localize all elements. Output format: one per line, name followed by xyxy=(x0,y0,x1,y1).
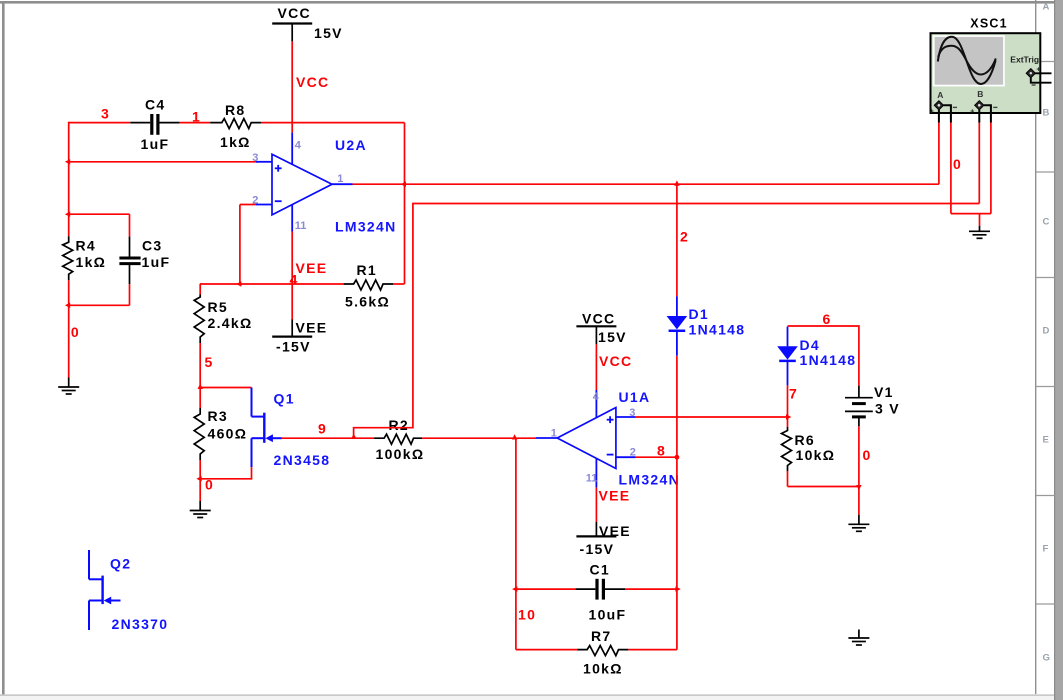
battery V1 xyxy=(858,386,860,398)
wire Q1 source to R3 xyxy=(200,478,251,480)
wire scope A- down xyxy=(950,123,952,214)
svg-text:1uF: 1uF xyxy=(142,254,171,270)
wire U2A output to scope A xyxy=(353,183,939,185)
svg-text:0: 0 xyxy=(71,324,80,340)
svg-text:VEE: VEE xyxy=(296,260,328,276)
svg-text:R2: R2 xyxy=(389,417,410,433)
capacitor C3 xyxy=(129,237,131,257)
wire net10 vertical xyxy=(515,438,517,649)
svg-text:1kΩ: 1kΩ xyxy=(220,134,251,150)
wire pin2 vertical xyxy=(239,205,241,285)
pin 11 xyxy=(595,458,597,488)
svg-text:3 V: 3 V xyxy=(875,400,900,416)
wire R7 right xyxy=(628,649,677,651)
svg-text:15V: 15V xyxy=(314,25,343,41)
transistor Q2 xyxy=(89,550,121,630)
resistor R6 xyxy=(782,427,792,471)
ground (floating) xyxy=(848,630,869,646)
svg-text:C3: C3 xyxy=(142,238,163,254)
svg-text:1: 1 xyxy=(551,428,557,440)
svg-text:-15V: -15V xyxy=(276,339,311,355)
svg-text:ExtTrig: ExtTrig xyxy=(1010,54,1039,64)
svg-text:A: A xyxy=(937,90,943,100)
svg-text:1N4148: 1N4148 xyxy=(689,321,746,337)
node junction net2/output xyxy=(674,180,679,185)
svg-text:+: + xyxy=(1036,66,1040,73)
node junction at net3/pin3 xyxy=(65,159,70,164)
node junction pin2 net xyxy=(236,281,241,286)
wire R5 bottom xyxy=(199,343,201,388)
wire net3 horizontal to C4 xyxy=(69,122,131,124)
svg-text:6: 6 xyxy=(823,311,832,327)
ground xyxy=(848,515,869,532)
op-amp U1A xyxy=(557,408,616,469)
svg-text:R6: R6 xyxy=(795,432,816,448)
pin 1 output xyxy=(536,437,558,439)
svg-text:2: 2 xyxy=(630,447,636,459)
svg-text:XSC1: XSC1 xyxy=(970,17,1007,31)
wire bottom net0 xyxy=(788,486,859,488)
svg-text:B: B xyxy=(1043,108,1050,119)
svg-text:D: D xyxy=(1043,326,1050,337)
svg-text:10kΩ: 10kΩ xyxy=(796,447,836,463)
wire R4 bottom xyxy=(68,280,70,305)
wire pin11 to VEE xyxy=(291,232,293,320)
svg-text:+: + xyxy=(930,108,934,115)
diode D1 xyxy=(676,296,678,316)
svg-text:1kΩ: 1kΩ xyxy=(76,254,107,270)
diode D4 xyxy=(787,327,789,347)
scope trace 2 xyxy=(938,46,996,75)
wire inverting net horizontal xyxy=(200,283,344,285)
ground xyxy=(190,501,211,518)
wire V1 bottom xyxy=(858,426,860,486)
svg-text:VCC: VCC xyxy=(582,310,615,326)
wire net6 xyxy=(788,326,859,386)
capacitor C4 xyxy=(130,122,150,124)
node junction output/feedback xyxy=(401,182,406,187)
svg-text:U1A: U1A xyxy=(619,389,651,405)
wire VCC to pin4 xyxy=(595,344,597,390)
wire scope B+ down xyxy=(978,123,980,204)
node junction net8 xyxy=(675,455,680,460)
svg-text:4: 4 xyxy=(593,391,600,403)
op-amp U2A xyxy=(272,154,332,215)
wire VCC to pin4 xyxy=(291,41,293,132)
svg-text:R1: R1 xyxy=(357,262,378,278)
wire R1 right xyxy=(393,283,405,285)
svg-text:2: 2 xyxy=(680,229,689,245)
wire feedback vertical x404 xyxy=(404,123,406,284)
wire net3 branch to C3 xyxy=(69,213,130,215)
wire pin3 to net7 xyxy=(636,416,788,418)
resistor R7 xyxy=(516,649,577,651)
svg-text:F: F xyxy=(1043,544,1049,555)
pin 3 xyxy=(616,416,636,418)
pin 4 xyxy=(595,390,597,418)
wire net3 left vertical xyxy=(68,122,70,236)
svg-text:C4: C4 xyxy=(145,96,166,112)
wire pin2 stub xyxy=(240,204,256,206)
svg-text:10kΩ: 10kΩ xyxy=(583,661,623,677)
svg-text:E: E xyxy=(1043,435,1049,446)
svg-text:2N3458: 2N3458 xyxy=(274,452,331,468)
wire parallel bottom join xyxy=(69,304,130,306)
svg-text:10: 10 xyxy=(518,606,536,622)
node junction V1/net0 xyxy=(856,485,861,490)
svg-text:15V: 15V xyxy=(598,329,627,345)
wire net5 to Q1 drain xyxy=(200,387,251,389)
svg-text:10uF: 10uF xyxy=(589,606,627,622)
svg-text:VCC: VCC xyxy=(278,5,311,21)
svg-text:LM324N: LM324N xyxy=(335,219,396,235)
resistor R4 xyxy=(63,236,73,280)
svg-text:3: 3 xyxy=(629,407,635,419)
svg-text:5.6kΩ: 5.6kΩ xyxy=(345,294,390,310)
svg-text:7: 7 xyxy=(789,386,798,402)
svg-text:G: G xyxy=(1043,653,1050,664)
svg-text:9: 9 xyxy=(318,421,327,437)
wire scope B- down xyxy=(990,123,992,214)
svg-text:D1: D1 xyxy=(689,306,710,322)
svg-text:B: B xyxy=(977,89,983,99)
resistor R1 xyxy=(344,280,393,290)
wire C3 top lead xyxy=(129,214,131,236)
wire net2 vertical xyxy=(676,184,678,296)
svg-text:VEE: VEE xyxy=(599,523,631,539)
svg-text:4: 4 xyxy=(295,139,302,151)
svg-text:LM324N: LM324N xyxy=(619,472,680,488)
svg-text:0: 0 xyxy=(953,156,962,172)
wire R8 to feedback corner xyxy=(261,122,405,124)
pin 2 xyxy=(256,204,272,206)
pin 1 output xyxy=(332,183,353,185)
wire scope ground stem xyxy=(979,214,981,226)
svg-text:VCC: VCC xyxy=(599,353,632,369)
node junction net5 xyxy=(198,384,203,389)
svg-text:8: 8 xyxy=(657,443,666,459)
resistor R8 xyxy=(210,119,261,129)
svg-text:11: 11 xyxy=(295,220,307,232)
transistor Q1 xyxy=(252,388,282,468)
svg-text:R5: R5 xyxy=(208,299,229,315)
svg-text:R8: R8 xyxy=(225,102,246,118)
wire Q1 gate to R2 xyxy=(282,437,374,439)
wire net0 down to ground xyxy=(68,305,70,377)
svg-text:R7: R7 xyxy=(591,628,612,644)
power VEE rail (U1A) xyxy=(595,522,597,536)
pin 4 xyxy=(291,133,293,165)
wire net9 jog to scope B xyxy=(354,204,980,438)
wire Q1 source red xyxy=(251,467,253,479)
svg-text:Q2: Q2 xyxy=(110,555,131,571)
node junction R4/C3 bottom xyxy=(65,303,70,308)
pin 2 xyxy=(616,456,636,458)
ground xyxy=(969,226,990,239)
svg-text:A: A xyxy=(1043,2,1050,13)
power VEE rail xyxy=(291,320,293,337)
svg-text:VEE: VEE xyxy=(599,487,631,503)
svg-text:100kΩ: 100kΩ xyxy=(376,446,425,462)
wire net0 to ground xyxy=(199,479,201,501)
wire net7 vertical xyxy=(787,385,789,427)
pin 3 xyxy=(256,161,272,163)
wire R3 bottom xyxy=(199,460,201,479)
svg-text:V1: V1 xyxy=(874,384,894,400)
svg-text:1: 1 xyxy=(337,173,343,185)
wire net0 to ground xyxy=(858,487,860,515)
svg-text:3: 3 xyxy=(252,152,258,164)
svg-text:0: 0 xyxy=(863,447,872,463)
wire pin3 U2A to net3 xyxy=(69,161,258,163)
resistor R2 xyxy=(374,434,422,444)
capacitor C1 xyxy=(516,588,576,590)
wire A-/B- join xyxy=(951,213,991,215)
svg-text:R4: R4 xyxy=(76,238,97,254)
svg-text:VCC: VCC xyxy=(296,74,329,90)
wire net8 vertical xyxy=(676,356,678,650)
wire net1 C4 to R8 xyxy=(180,122,211,124)
resistor R3 xyxy=(199,388,201,409)
wire pin11 to VEE xyxy=(595,488,597,522)
svg-text:+: + xyxy=(970,108,974,115)
svg-text:1uF: 1uF xyxy=(141,136,170,152)
svg-text:C: C xyxy=(1043,217,1050,228)
svg-text:5: 5 xyxy=(205,354,214,370)
svg-text:2.4kΩ: 2.4kΩ xyxy=(208,315,253,331)
svg-text:D4: D4 xyxy=(800,337,821,353)
svg-text:460Ω: 460Ω xyxy=(208,426,248,442)
wire C3 bottom xyxy=(129,284,131,305)
resistor R5 xyxy=(199,284,201,295)
node junction net9 xyxy=(351,434,356,439)
svg-text:R3: R3 xyxy=(208,408,229,424)
wire pin2 to net8 xyxy=(636,456,677,458)
svg-text:1N4148: 1N4148 xyxy=(800,352,857,368)
wire C1 right xyxy=(625,588,677,590)
wire R6 bottom xyxy=(787,471,789,487)
ground xyxy=(58,378,79,395)
svg-text:-15V: -15V xyxy=(580,541,615,557)
scope trace 1 xyxy=(938,37,996,84)
svg-text:11: 11 xyxy=(586,473,598,485)
node junction net3/C3 xyxy=(65,212,70,217)
svg-text:VEE: VEE xyxy=(296,320,328,336)
wire scope A+ down xyxy=(938,123,940,185)
svg-text:3: 3 xyxy=(101,105,110,121)
wire R2 to U1A output xyxy=(422,437,535,439)
svg-text:2N3370: 2N3370 xyxy=(112,616,169,632)
node junction output/net10 xyxy=(512,434,517,439)
svg-text:Q1: Q1 xyxy=(274,391,295,407)
node junction R3 bottom xyxy=(196,476,201,481)
svg-text:U2A: U2A xyxy=(335,137,367,153)
svg-text:C1: C1 xyxy=(590,562,611,578)
pin 11 xyxy=(291,205,293,232)
